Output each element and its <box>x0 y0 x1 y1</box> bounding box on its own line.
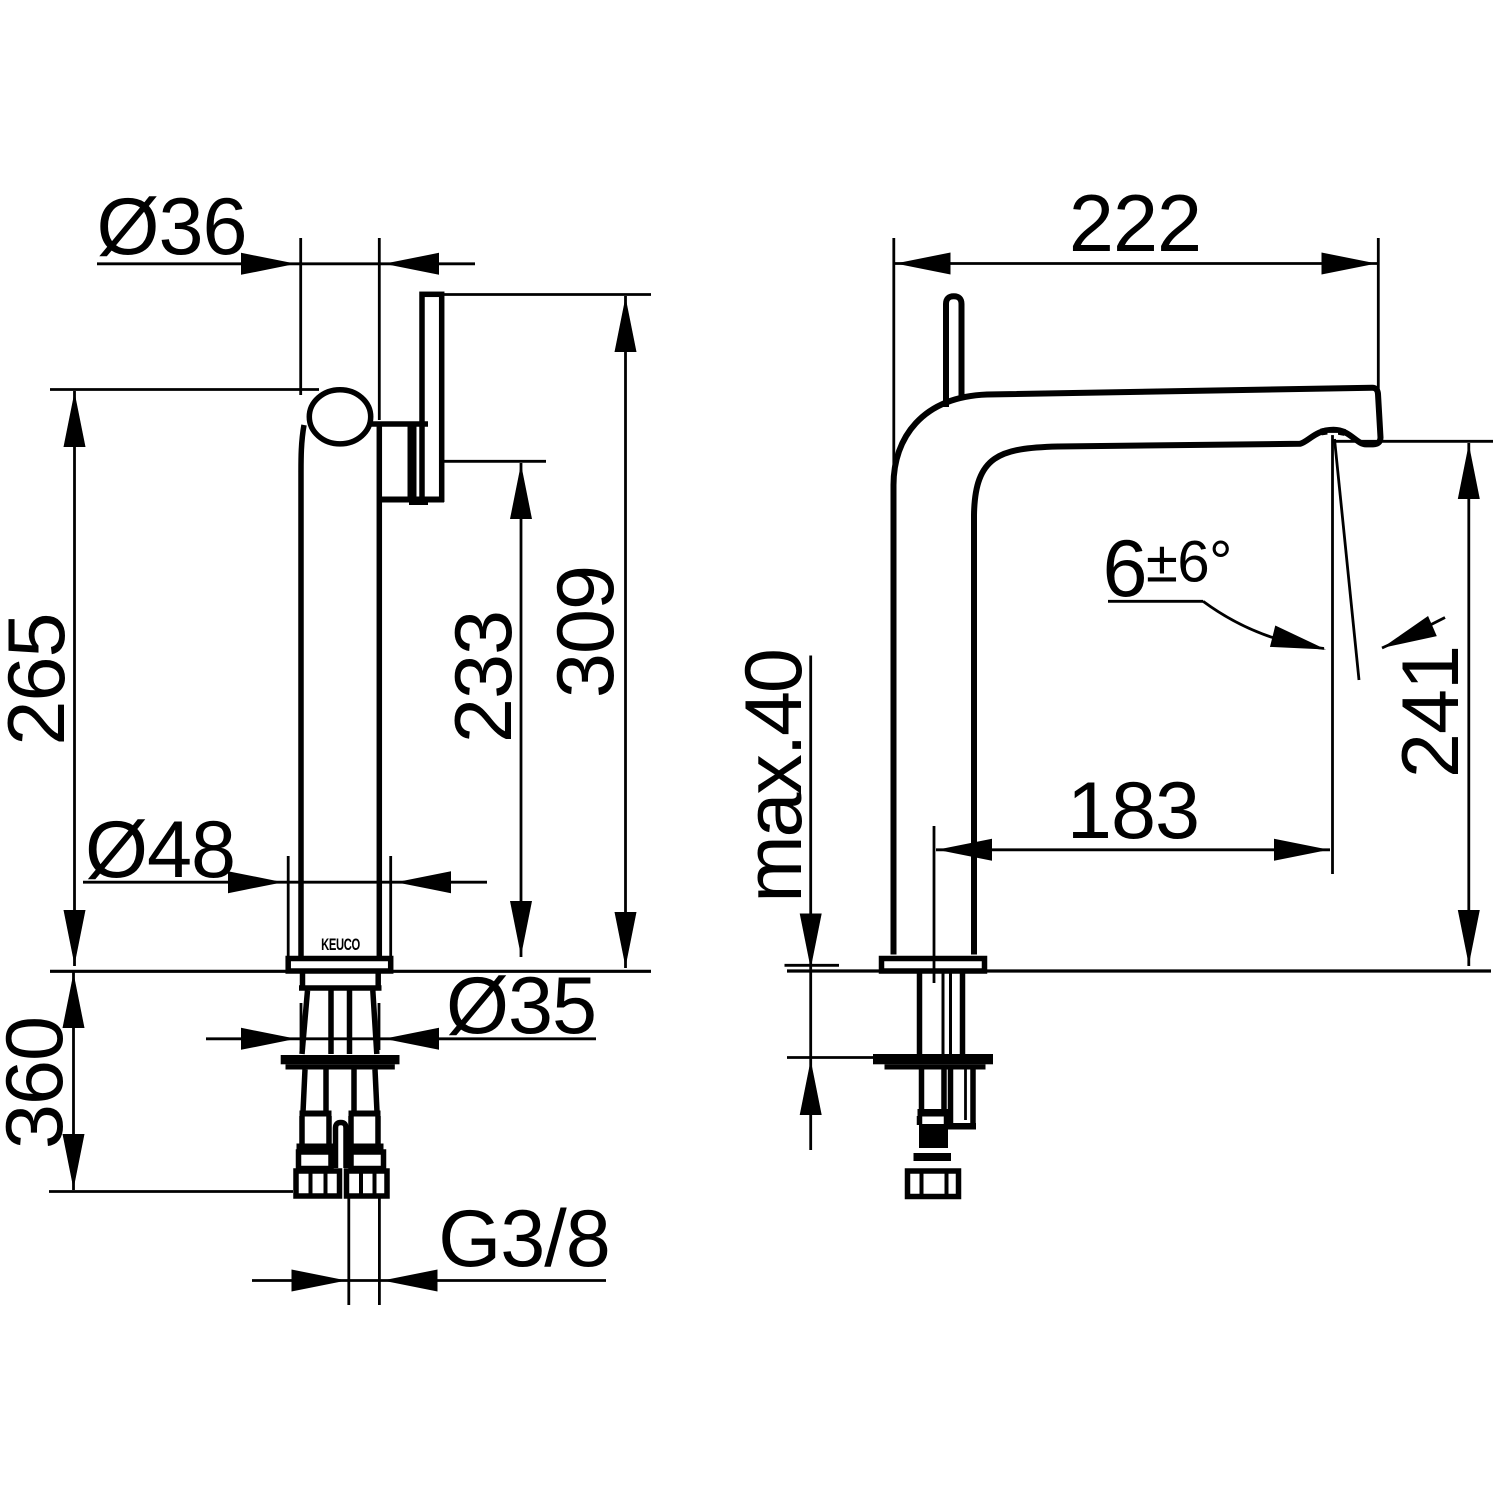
svg-text:241: 241 <box>1386 646 1476 778</box>
base flange <box>288 959 391 972</box>
dim text 233 <box>439 611 529 743</box>
dim 233 line <box>520 463 523 957</box>
handle hub top edge <box>371 421 428 427</box>
dim 360 line <box>72 972 75 1190</box>
base flange side <box>882 959 985 972</box>
dim text 6+-6 <box>1102 524 1231 614</box>
svg-text:309: 309 <box>541 566 631 698</box>
dim line 183 <box>936 848 1330 851</box>
dim text 309 <box>541 566 631 698</box>
max40 tick <box>785 964 840 967</box>
svg-text:max.40: max.40 <box>729 650 819 902</box>
dim text 241 <box>1386 646 1476 778</box>
dim text 183 <box>1067 766 1199 856</box>
shank box below flange <box>300 974 306 989</box>
ext lines O35 <box>300 1003 303 1050</box>
ext lines 222 <box>892 238 895 480</box>
ext lines O48 <box>287 856 290 957</box>
washer ref line <box>787 1056 873 1059</box>
body left edge <box>301 425 304 956</box>
lever handle side <box>946 296 962 407</box>
handle hub bottom edge <box>377 497 444 503</box>
right hose tube <box>351 1070 357 1113</box>
dim text O48 <box>85 805 235 895</box>
dim line O35 <box>206 1037 596 1040</box>
lever handle front <box>422 294 442 499</box>
ext line 183 center <box>933 826 936 983</box>
washer side <box>873 1054 993 1064</box>
shank side <box>917 974 923 1055</box>
dim text 265 <box>0 613 82 745</box>
rear tube side <box>948 1070 954 1128</box>
svg-text:183: 183 <box>1067 766 1199 856</box>
ref line 241 top <box>1333 440 1493 443</box>
dim text G3/8 <box>438 1194 610 1284</box>
dim line 222 <box>894 262 1378 265</box>
outlet tilted axis 6deg <box>1335 439 1360 680</box>
ext lines O36 <box>299 238 302 395</box>
svg-text:Ø36: Ø36 <box>96 182 246 272</box>
dim line O48 <box>83 881 487 884</box>
ext line 265 top <box>50 388 319 391</box>
svg-text:360: 360 <box>0 1017 80 1149</box>
arrows O36 <box>241 253 439 275</box>
handle hub inner bar <box>408 423 417 502</box>
bottom ref line 360 <box>49 1190 293 1193</box>
leader 6deg <box>1108 600 1203 603</box>
front tube side <box>919 1070 925 1111</box>
countertop line side <box>787 969 1491 972</box>
dim line O36 <box>97 262 475 265</box>
center hose <box>336 1123 347 1169</box>
dim 233 ext line <box>444 460 546 463</box>
dim 241 <box>1467 443 1470 966</box>
dim max.40 <box>729 650 819 902</box>
KEUCO logo <box>321 936 360 955</box>
faucet body outline side <box>894 388 1381 955</box>
dim text O36 <box>96 182 246 272</box>
dim 309 line <box>624 296 627 968</box>
svg-text:265: 265 <box>0 613 82 745</box>
ext line 309 top <box>444 293 651 296</box>
washer disc <box>281 1055 400 1064</box>
svg-text:KEUCO: KEUCO <box>321 936 360 955</box>
bump crest heavy + slit <box>1321 431 1345 433</box>
dome cap <box>309 390 370 444</box>
dim text O35 <box>446 961 596 1051</box>
dim text 222 <box>1069 179 1201 269</box>
dim text 360 <box>0 1017 80 1149</box>
body right edge <box>377 423 383 956</box>
threaded section lines <box>302 991 308 1055</box>
svg-text:222: 222 <box>1069 179 1201 269</box>
dim 265 line <box>73 391 76 966</box>
dim line G3/8 <box>252 1279 606 1282</box>
hose tails / G3/8 ext lines <box>347 1199 350 1306</box>
left hose tube <box>303 1070 305 1113</box>
countertop line left view <box>50 970 651 973</box>
svg-text:233: 233 <box>439 611 529 743</box>
svg-text:G3/8: G3/8 <box>438 1194 610 1284</box>
outlet vertical ref line <box>1331 434 1334 874</box>
svg-text:±6°: ±6° <box>1146 530 1232 595</box>
